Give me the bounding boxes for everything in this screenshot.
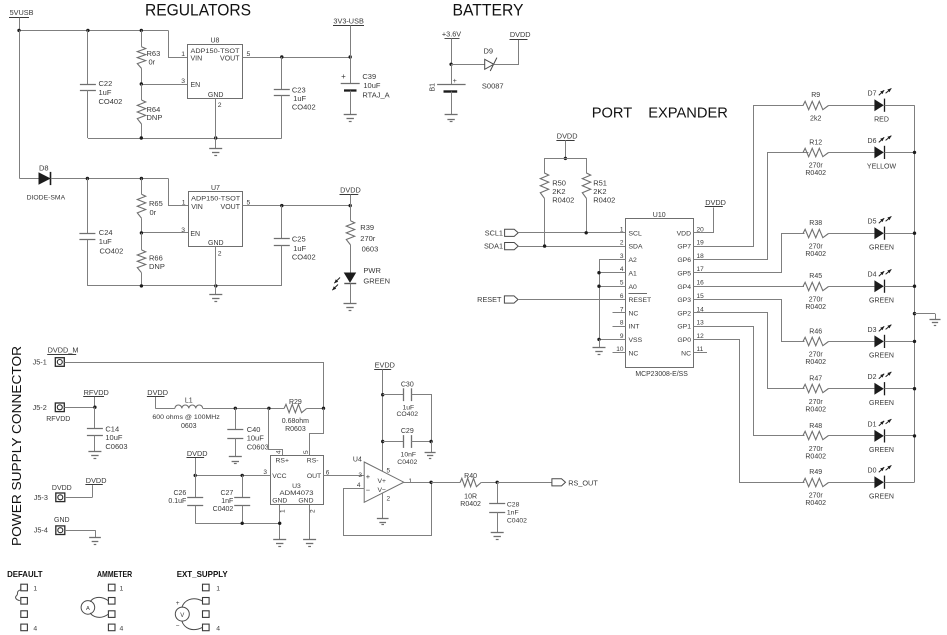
- svg-text:GP0: GP0: [677, 337, 691, 344]
- resistor R51: [582, 173, 615, 233]
- power flag DVDD at U3 VCC: [187, 449, 208, 476]
- voltmeter symbol V: [175, 600, 189, 629]
- pin 10 NC stub: [613, 352, 626, 354]
- svg-text:DVDD: DVDD: [340, 185, 361, 194]
- svg-text:270r: 270r: [809, 296, 824, 303]
- wire SCL: [518, 231, 626, 234]
- svg-text:0r: 0r: [149, 58, 156, 67]
- svg-text:SCL1: SCL1: [485, 228, 503, 237]
- svg-text:C40: C40: [247, 425, 261, 434]
- IC U10 right pin names: [677, 230, 692, 357]
- svg-text:A1: A1: [629, 270, 638, 277]
- svg-text:OUT: OUT: [307, 473, 321, 480]
- svg-text:GREEN: GREEN: [869, 353, 894, 360]
- ground below PWR LED: [344, 283, 357, 310]
- svg-text:3: 3: [181, 78, 185, 85]
- svg-text:GP3: GP3: [677, 297, 691, 304]
- IC U10 part number: [635, 371, 688, 378]
- svg-text:V−: V−: [378, 487, 387, 494]
- svg-text:1: 1: [280, 509, 287, 513]
- svg-text:POWER SUPPLY CONNECTOR: POWER SUPPLY CONNECTOR: [10, 346, 24, 546]
- svg-text:4: 4: [33, 625, 37, 632]
- wire left rail down to D8: [19, 30, 21, 178]
- svg-text:U8: U8: [211, 38, 220, 45]
- svg-text:D8: D8: [39, 163, 49, 172]
- LED D3 GREEN: [868, 325, 894, 360]
- ground at LED rail: [929, 320, 940, 326]
- wire decoupling ground rail: [195, 522, 281, 525]
- svg-text:4: 4: [216, 625, 220, 632]
- svg-text:DNP: DNP: [147, 113, 163, 122]
- pin 11 NC stub: [694, 352, 707, 354]
- svg-text:0603: 0603: [362, 245, 379, 254]
- svg-text:RS-: RS-: [307, 458, 319, 465]
- wire J5-2 to RFVDD: [64, 406, 96, 409]
- svg-text:1uF: 1uF: [293, 244, 306, 253]
- connector J5-4: [34, 517, 70, 535]
- svg-text:D6: D6: [868, 138, 877, 145]
- wire GP0 to R49 row: [694, 340, 805, 483]
- IC U10 left pin names: [629, 230, 652, 357]
- power flag DVDD at U10 VDD: [705, 198, 726, 207]
- wire RS- sense: [310, 409, 324, 456]
- resistor R46: [803, 328, 829, 366]
- svg-text:DVDD: DVDD: [86, 476, 107, 485]
- svg-text:R40: R40: [464, 473, 477, 480]
- svg-text:3: 3: [263, 469, 267, 476]
- header AMMETER pin labels: [120, 585, 124, 632]
- resistor R63: [137, 30, 160, 84]
- ground below U7: [209, 286, 222, 302]
- svg-text:DVDD: DVDD: [705, 198, 726, 207]
- wire D5 cathode: [885, 233, 915, 235]
- svg-text:V+: V+: [378, 478, 387, 485]
- wire U3 VCC: [194, 469, 271, 477]
- svg-text:D3: D3: [868, 327, 877, 334]
- wire U3 OUT to U4: [323, 469, 364, 479]
- svg-text:+: +: [366, 472, 371, 481]
- svg-text:10nF: 10nF: [401, 452, 417, 459]
- svg-text:J5-1: J5-1: [33, 358, 47, 367]
- svg-text:R0402: R0402: [805, 454, 826, 461]
- svg-text:1: 1: [182, 200, 186, 207]
- svg-text:270r: 270r: [809, 446, 824, 453]
- svg-text:RED: RED: [874, 116, 889, 123]
- svg-text:BATTERY: BATTERY: [453, 2, 524, 20]
- wire voltmeter to pads: [182, 599, 203, 630]
- svg-text:D4: D4: [868, 272, 877, 279]
- capacitor C14: [87, 407, 128, 452]
- svg-text:J5-4: J5-4: [34, 526, 48, 535]
- svg-text:A0: A0: [629, 284, 638, 291]
- power flag RFVDD: [83, 388, 109, 407]
- svg-text:CO402: CO402: [100, 247, 124, 256]
- wire D1 cathode: [885, 435, 915, 437]
- pin 1 2 wires U3 GND: [280, 505, 317, 539]
- svg-text:5: 5: [303, 450, 310, 454]
- wire GP1 to R48 row: [694, 327, 805, 436]
- svg-text:R45: R45: [809, 273, 822, 280]
- svg-text:270r: 270r: [809, 352, 824, 359]
- svg-text:DVDD_M: DVDD_M: [48, 345, 79, 354]
- resistor R39: [346, 206, 378, 273]
- svg-text:VIN: VIN: [191, 204, 203, 211]
- svg-text:PWR: PWR: [363, 266, 381, 275]
- diode D9 S0087: [482, 46, 504, 90]
- svg-text:DVDD: DVDD: [510, 30, 531, 39]
- svg-text:5: 5: [387, 468, 391, 475]
- resistor R9: [803, 92, 829, 122]
- IC U8 regulator ADP150-TSOT box: [188, 38, 243, 99]
- svg-text:3: 3: [181, 227, 185, 234]
- svg-text:U7: U7: [211, 185, 220, 192]
- svg-text:GND: GND: [298, 497, 313, 504]
- svg-text:600 ohms @ 100MHz: 600 ohms @ 100MHz: [152, 414, 219, 421]
- svg-text:RS+: RS+: [276, 458, 289, 465]
- LED D4 GREEN: [868, 269, 894, 304]
- power flag EVDD: [374, 360, 395, 369]
- svg-text:REGULATORS: REGULATORS: [145, 2, 251, 20]
- wire RS+ sense: [269, 409, 283, 456]
- pin 8 INT stub: [613, 326, 626, 328]
- svg-text:5: 5: [247, 200, 251, 207]
- pin 2 wire U8 GND: [216, 98, 222, 138]
- resistor R65: [137, 179, 162, 233]
- resistor R48: [803, 423, 829, 461]
- svg-text:15: 15: [697, 293, 705, 300]
- LED D2 GREEN: [868, 372, 894, 407]
- svg-text:C24: C24: [99, 228, 113, 237]
- svg-text:SDA1: SDA1: [484, 242, 503, 251]
- wire ammeter to pads: [90, 597, 108, 617]
- wire J5-3 to DVDD: [65, 497, 93, 499]
- svg-text:SDA: SDA: [629, 244, 643, 251]
- svg-text:NC: NC: [629, 350, 639, 357]
- pin 7 NC stub: [613, 312, 626, 314]
- capacitor C26: [168, 475, 203, 523]
- svg-text:1nF: 1nF: [221, 498, 233, 505]
- svg-text:13: 13: [697, 320, 705, 327]
- svg-text:VOUT: VOUT: [220, 56, 240, 63]
- capacitor C22: [80, 30, 122, 138]
- power flag DVDD at L1: [147, 388, 168, 409]
- wire J5-1 DVDD_M to R29: [65, 363, 324, 409]
- svg-text:R46: R46: [809, 328, 822, 335]
- svg-text:AMMETER: AMMETER: [97, 569, 132, 579]
- svg-text:GREEN: GREEN: [869, 297, 894, 304]
- svg-text:DIODE-SMA: DIODE-SMA: [27, 195, 66, 202]
- LED D7 RED: [868, 88, 892, 123]
- wire GP7 to R9 row: [694, 106, 804, 247]
- svg-text:16: 16: [697, 280, 705, 287]
- header DEFAULT title: [7, 569, 43, 579]
- svg-text:VIN: VIN: [191, 56, 203, 63]
- ground below U8: [209, 138, 222, 156]
- net tag RS_OUT: [552, 478, 598, 487]
- capacitor C30: [383, 382, 432, 442]
- svg-text:GND: GND: [272, 497, 287, 504]
- svg-text:1: 1: [408, 478, 412, 485]
- wire R40 to RS_OUT tag: [497, 482, 552, 484]
- svg-text:5VUSB: 5VUSB: [10, 8, 34, 17]
- power flag DVDD at U7 output: [340, 185, 361, 205]
- svg-text:6: 6: [620, 293, 624, 300]
- svg-text:CO402: CO402: [99, 97, 123, 106]
- LED D5 GREEN: [868, 216, 894, 251]
- power flag DVDD_M: [47, 345, 78, 354]
- wire D0 cathode: [885, 482, 915, 484]
- svg-text:GP6: GP6: [677, 257, 691, 264]
- LED D6 YELLOW: [867, 136, 897, 171]
- svg-text:GND: GND: [208, 240, 224, 247]
- header DEFAULT pads: [21, 584, 28, 630]
- op-amp U4: [353, 457, 413, 503]
- svg-text:C30: C30: [401, 382, 414, 389]
- wire J5-4 to ground: [65, 530, 96, 538]
- svg-text:4: 4: [120, 625, 124, 632]
- svg-text:0.68ohm: 0.68ohm: [282, 418, 309, 425]
- svg-text:CO402: CO402: [397, 411, 419, 418]
- svg-text:RFVDD: RFVDD: [46, 416, 70, 423]
- svg-text:ADP150-TSOT: ADP150-TSOT: [191, 48, 240, 55]
- svg-text:DVDD: DVDD: [187, 449, 208, 458]
- header EXT_SUPPLY pads: [203, 584, 210, 630]
- svg-text:C0603: C0603: [247, 443, 269, 452]
- IC U10 MCP23008 box: [626, 212, 694, 368]
- svg-text:MCP23008-E/SS: MCP23008-E/SS: [635, 371, 688, 378]
- LED D1 GREEN: [868, 419, 894, 454]
- wire R9 to D7: [829, 105, 875, 107]
- resistor R47: [803, 376, 829, 414]
- svg-text:−: −: [176, 622, 180, 629]
- wire GP4 to R45 row: [694, 286, 804, 288]
- resistor R29: [282, 399, 325, 433]
- svg-text:DVDD: DVDD: [52, 485, 72, 492]
- IC U7 regulator ADP150-TSOT box: [189, 185, 243, 247]
- pin 2 wire U7 GND: [216, 247, 222, 286]
- resistor R49: [803, 469, 829, 507]
- connector J5-2: [33, 403, 71, 423]
- svg-text:R0402: R0402: [805, 304, 826, 311]
- svg-text:D7: D7: [868, 91, 877, 98]
- wire GP5 to R38 row: [694, 234, 805, 273]
- wire A2 A1 A0 VSS bus: [597, 259, 626, 341]
- wire D4 cathode: [885, 286, 915, 288]
- svg-text:A: A: [86, 606, 90, 612]
- svg-text:2: 2: [309, 509, 316, 513]
- svg-text:D0: D0: [868, 468, 877, 475]
- svg-text:R49: R49: [809, 469, 822, 476]
- svg-text:YELLOW: YELLOW: [867, 164, 897, 171]
- svg-text:10uF: 10uF: [105, 433, 123, 442]
- ground at J5-4: [89, 538, 101, 545]
- net tag SDA1: [484, 242, 518, 251]
- svg-text:10R: 10R: [464, 493, 477, 500]
- pin 5 wire U8 VOUT: [243, 51, 352, 59]
- wire R46 to D3: [829, 341, 875, 343]
- diode D8: [20, 163, 66, 201]
- wire ground rail regulator 1: [88, 136, 282, 139]
- wire R48 to D1: [829, 435, 875, 437]
- header EXT_SUPPLY title: [177, 569, 228, 579]
- svg-text:C26: C26: [173, 490, 186, 497]
- ground below U3 GND1: [273, 540, 286, 547]
- wire R45 to D4: [829, 286, 875, 288]
- ammeter symbol A: [81, 601, 95, 615]
- title BATTERY: [453, 2, 524, 20]
- svg-text:RESET: RESET: [629, 297, 652, 304]
- svg-text:V: V: [180, 613, 184, 619]
- capacitor C39 polarized: [341, 57, 390, 114]
- header EXT_SUPPLY pin labels: [216, 585, 220, 632]
- header AMMETER title: [97, 569, 132, 579]
- svg-text:ADM4073: ADM4073: [280, 490, 314, 497]
- svg-text:U3: U3: [292, 483, 301, 490]
- svg-text:R9: R9: [811, 92, 820, 99]
- wire GP2 to R47 row: [694, 313, 805, 389]
- svg-text:SCL: SCL: [629, 230, 642, 237]
- svg-text:2k2: 2k2: [810, 115, 821, 122]
- resistor R66: [137, 233, 165, 286]
- svg-text:GREEN: GREEN: [869, 493, 894, 500]
- svg-text:D9: D9: [484, 46, 494, 55]
- svg-text:DVDD: DVDD: [557, 131, 578, 140]
- capacitor C28: [489, 482, 527, 532]
- svg-text:18: 18: [697, 253, 705, 260]
- svg-text:R0402: R0402: [805, 407, 826, 414]
- svg-text:1uF: 1uF: [99, 237, 112, 246]
- capacitor C27: [213, 475, 251, 523]
- ground at C29: [425, 442, 436, 459]
- LED PWR GREEN: [332, 266, 390, 290]
- svg-text:R0402: R0402: [805, 170, 826, 177]
- svg-text:270r: 270r: [360, 234, 376, 243]
- wire L1 to R29: [203, 407, 284, 410]
- ground below A-bus: [593, 339, 606, 354]
- svg-text:1: 1: [620, 226, 624, 233]
- svg-text:270r: 270r: [809, 492, 824, 499]
- svg-text:R12: R12: [809, 139, 822, 146]
- wire DVDD to L1: [155, 408, 175, 410]
- svg-text:R38: R38: [809, 220, 822, 227]
- svg-text:EN: EN: [190, 231, 200, 238]
- svg-text:0.1uF: 0.1uF: [168, 498, 186, 505]
- wire U4 V- to ground: [377, 493, 389, 525]
- net tag RESET: [477, 295, 518, 304]
- pin 4 label U3 RS+: [276, 450, 283, 454]
- wire R49 to D0: [829, 482, 875, 484]
- svg-text:2: 2: [387, 496, 391, 503]
- svg-text:R0402: R0402: [593, 196, 615, 205]
- header AMMETER pads: [108, 584, 115, 630]
- wire EN U8: [140, 82, 188, 85]
- svg-text:C0402: C0402: [213, 506, 234, 513]
- svg-text:1: 1: [120, 585, 124, 592]
- svg-text:3: 3: [620, 253, 624, 260]
- svg-text:1uF: 1uF: [99, 88, 112, 97]
- svg-text:C22: C22: [99, 79, 113, 88]
- pin 1 label U8: [181, 51, 185, 58]
- svg-text:0r: 0r: [150, 208, 157, 217]
- wire D3 cathode: [885, 341, 915, 343]
- wire GP6 to R12 row: [694, 153, 809, 260]
- title REGULATORS: [145, 2, 251, 20]
- net tag SCL1: [485, 228, 518, 237]
- svg-text:NC: NC: [629, 310, 639, 317]
- wire RESET: [518, 299, 626, 301]
- wire SDA: [518, 244, 626, 247]
- svg-text:10uF: 10uF: [363, 81, 381, 90]
- wire GP3 to R46 row: [694, 300, 805, 342]
- pin 3 label U8: [181, 78, 185, 85]
- svg-text:R39: R39: [360, 223, 374, 232]
- wire pullup tee: [545, 159, 587, 174]
- svg-text:270r: 270r: [809, 163, 824, 170]
- svg-text:12: 12: [697, 333, 705, 340]
- svg-text:VOUT: VOUT: [221, 204, 241, 211]
- wire R47 to D2: [829, 388, 875, 390]
- svg-text:J5-3: J5-3: [34, 493, 48, 502]
- svg-text:R0402: R0402: [805, 500, 826, 507]
- svg-text:C28: C28: [507, 501, 520, 508]
- svg-text:+: +: [341, 72, 346, 81]
- resistor R40: [460, 473, 499, 508]
- LED D0 GREEN: [868, 465, 894, 500]
- svg-text:EN: EN: [191, 82, 201, 89]
- wire R38 to D5: [829, 233, 875, 235]
- battery B1: [430, 64, 466, 115]
- capacitor C23: [274, 57, 316, 138]
- svg-text:1: 1: [181, 51, 185, 58]
- svg-text:8: 8: [620, 320, 624, 327]
- svg-text:C27: C27: [220, 490, 233, 497]
- svg-text:4: 4: [276, 450, 283, 454]
- svg-text:EVDD: EVDD: [375, 360, 395, 369]
- wire battery to D9: [451, 64, 485, 66]
- IC U10 right pin numbers: [697, 226, 705, 353]
- svg-text:−: −: [366, 486, 371, 495]
- wire 5VUSB horizontal rail: [19, 30, 168, 32]
- svg-text:R48: R48: [809, 423, 822, 430]
- svg-text:R47: R47: [809, 376, 822, 383]
- svg-text:R0402: R0402: [805, 359, 826, 366]
- svg-text:GP1: GP1: [677, 324, 691, 331]
- power flag DVDD at D9: [510, 30, 531, 39]
- svg-text:GREEN: GREEN: [869, 244, 894, 251]
- svg-text:J5-2: J5-2: [33, 403, 47, 412]
- connector J5-1: [33, 358, 65, 367]
- node battery junction: [449, 63, 452, 66]
- svg-text:RS_OUT: RS_OUT: [568, 478, 598, 487]
- svg-text:RFVDD: RFVDD: [84, 388, 109, 397]
- resistor R45: [803, 273, 829, 311]
- svg-text:+: +: [176, 600, 180, 607]
- node DVDD pullup junction: [564, 157, 567, 160]
- IC U10 left pin numbers: [616, 226, 624, 353]
- resistor R38: [803, 220, 829, 258]
- wire U4 minus input and feedback: [344, 483, 432, 536]
- svg-text:GP4: GP4: [677, 284, 691, 291]
- svg-text:2: 2: [620, 240, 624, 247]
- capacitor C25: [274, 206, 316, 286]
- svg-text:9: 9: [620, 333, 624, 340]
- wire D6 cathode: [885, 152, 915, 154]
- svg-text:GREEN: GREEN: [363, 277, 390, 286]
- svg-text:D2: D2: [868, 374, 877, 381]
- svg-text:L1: L1: [185, 397, 193, 404]
- svg-text:DVDD: DVDD: [147, 388, 168, 397]
- svg-text:RTAJ_A: RTAJ_A: [362, 91, 389, 100]
